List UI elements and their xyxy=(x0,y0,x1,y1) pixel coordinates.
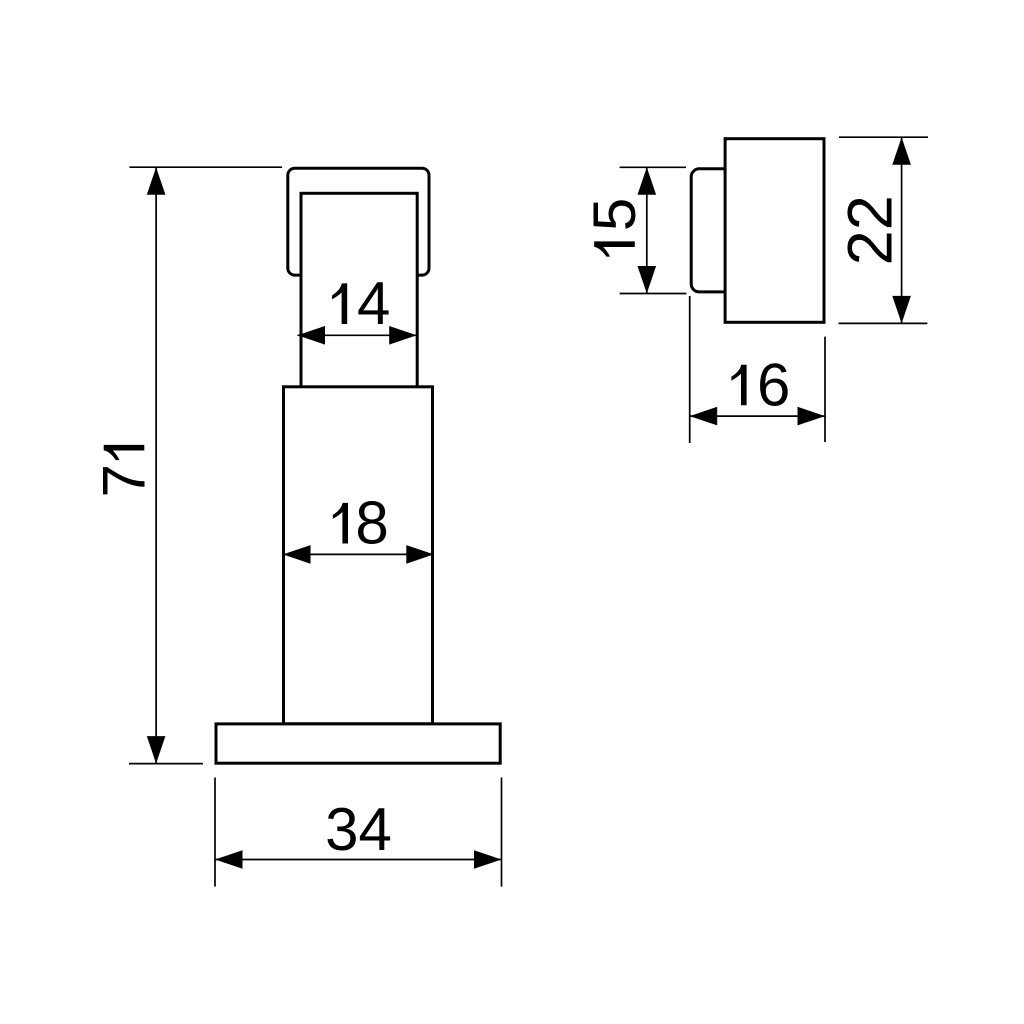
svg-text:6: 6 xyxy=(757,351,790,418)
svg-text:22: 22 xyxy=(836,195,906,265)
svg-text:5: 5 xyxy=(581,198,648,231)
svg-text:34: 34 xyxy=(325,796,392,863)
svg-text:8: 8 xyxy=(355,490,388,557)
svg-text:4: 4 xyxy=(357,270,390,337)
svg-text:7: 7 xyxy=(90,464,157,497)
